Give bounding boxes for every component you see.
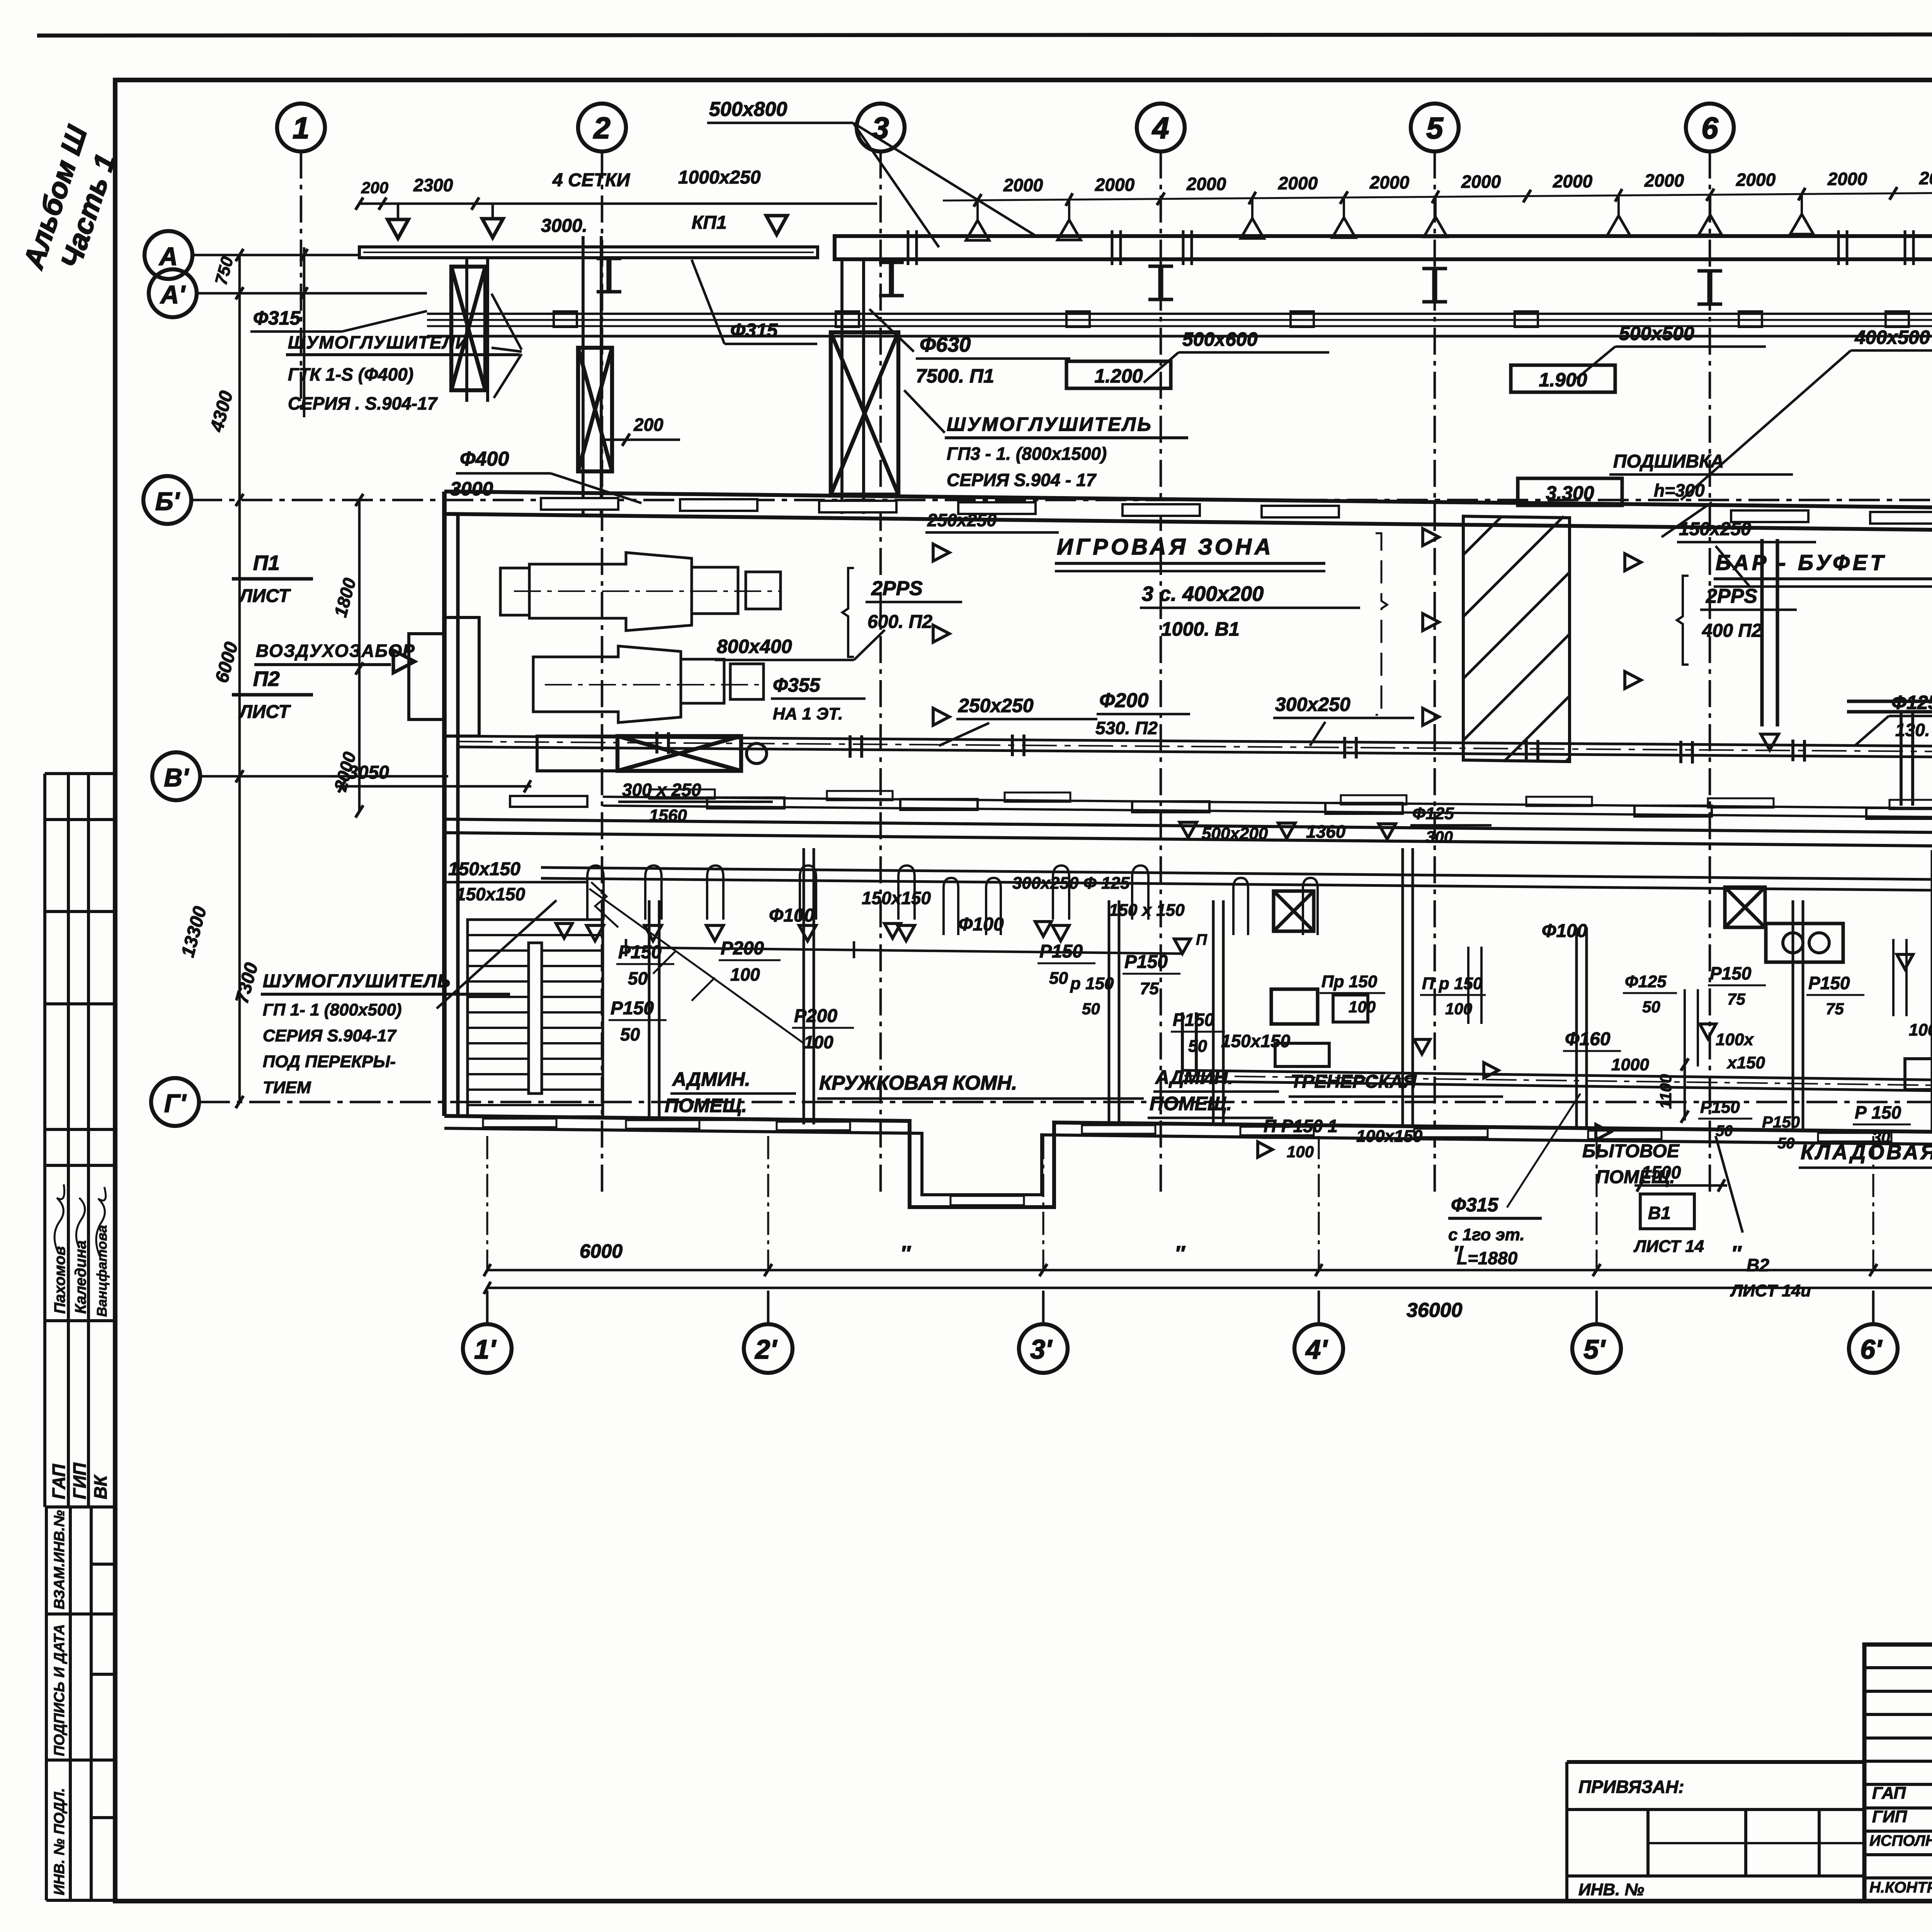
svg-text:530. П2: 530. П2 [1095, 718, 1158, 738]
svg-text:30: 30 [1872, 1128, 1890, 1146]
svg-text:П р 150: П р 150 [1422, 974, 1483, 993]
horizontal duct pair into bar wall [1847, 699, 1932, 703]
svg-text:ВК: ВК [90, 1475, 111, 1499]
dim line between А and А1 [303, 247, 306, 417]
small arrows lower band [1258, 1142, 1272, 1157]
svg-text:h=300: h=300 [1654, 480, 1705, 500]
svg-text:Ф355: Ф355 [773, 674, 821, 696]
axis А prime horizontal line [197, 292, 427, 295]
interior partitions [649, 848, 1932, 1132]
svg-text:ГИП: ГИП [70, 1463, 90, 1499]
svg-text:ИНВ. №: ИНВ. № [1578, 1880, 1644, 1899]
svg-text:АДМИН.: АДМИН. [672, 1068, 750, 1090]
svg-text:Ф400: Ф400 [460, 448, 509, 470]
svg-text:100: 100 [1287, 1143, 1314, 1161]
svg-text:150 х 150: 150 х 150 [1109, 901, 1185, 920]
svg-text:Ф630: Ф630 [920, 333, 971, 356]
svg-text:П1: П1 [253, 551, 280, 575]
svg-text:2000: 2000 [1186, 174, 1226, 194]
svg-text:НА 1 ЭТ.: НА 1 ЭТ. [773, 704, 843, 723]
bracket labels 2РРS [842, 568, 854, 657]
svg-text:А': А' [160, 280, 186, 309]
building outer top wall [444, 492, 1932, 532]
svg-text:5: 5 [1426, 111, 1444, 145]
svg-text:2000: 2000 [1461, 172, 1501, 192]
svg-text:Ф100: Ф100 [1542, 921, 1587, 941]
svg-text:″: ″ [1731, 1242, 1742, 1265]
svg-text:3000.: 3000. [541, 216, 587, 236]
leader zigzag 150x150 [589, 889, 804, 1043]
axis 4 [1137, 104, 1185, 151]
svg-text:50: 50 [628, 968, 648, 988]
svg-text:ЛИСТ: ЛИСТ [238, 586, 291, 606]
svg-text:СЕРИЯ S.904-17: СЕРИЯ S.904-17 [263, 1026, 397, 1045]
svg-text:150х150: 150х150 [456, 884, 525, 904]
svg-text:Ф315: Ф315 [1451, 1194, 1499, 1216]
ventilation unit П1 [500, 553, 781, 631]
svg-text:ПОДШИВКА: ПОДШИВКА [1613, 451, 1724, 472]
cross silencer + heater block [617, 736, 741, 771]
svg-text:ШУМОГЛУШИТЕЛИ: ШУМОГЛУШИТЕЛИ [288, 332, 469, 352]
svg-text:2000: 2000 [1003, 175, 1043, 195]
svg-text:150х150: 150х150 [448, 859, 520, 879]
svg-text:5': 5' [1583, 1334, 1606, 1364]
axis Г-prime [151, 1078, 199, 1126]
svg-text:100: 100 [1349, 998, 1376, 1016]
grille duct 1000x250 КП1 [359, 247, 818, 258]
svg-text:ЛИСТ 14и: ЛИСТ 14и [1730, 1281, 1811, 1300]
svg-text:Р150: Р150 [1710, 963, 1752, 983]
svg-text:ЛИСТ 14: ЛИСТ 14 [1633, 1237, 1704, 1256]
lower band fans and boxes [1274, 891, 1314, 931]
svg-text:100: 100 [804, 1032, 833, 1052]
svg-text:Ф100: Ф100 [769, 905, 815, 926]
svg-text:100х150: 100х150 [1909, 1020, 1932, 1039]
svg-text:В2: В2 [1747, 1255, 1769, 1275]
svg-text:2300: 2300 [413, 175, 453, 195]
axis 2 [578, 104, 626, 151]
svg-text:200: 200 [633, 415, 663, 435]
column I-beam symbols [597, 259, 621, 292]
top dimension line with 2000 spacing [359, 167, 1932, 240]
axis 6 [1686, 104, 1734, 151]
svg-text:100: 100 [1445, 1000, 1472, 1018]
fan unit with two circles [1766, 923, 1843, 962]
svg-text:2': 2' [754, 1334, 777, 1364]
axis 1 prime [463, 1324, 512, 1373]
svg-text:50: 50 [1049, 969, 1068, 988]
axis 5 [1411, 104, 1459, 151]
svg-text:2000: 2000 [1827, 169, 1867, 189]
svg-text:2РРS: 2РРS [1706, 585, 1757, 607]
axis А [145, 231, 192, 279]
extra risers left rooms [944, 878, 1318, 935]
svg-text:7500. П1: 7500. П1 [916, 365, 994, 387]
svg-text:1500: 1500 [1641, 1162, 1681, 1182]
elevation boxed labels [1066, 361, 1171, 388]
svg-text:3000: 3000 [450, 478, 493, 500]
svg-text:В1: В1 [1648, 1203, 1671, 1223]
left margin signature table ГАП ГИП ВК [45, 1165, 115, 1507]
svg-text:ПРИВЯЗАН:: ПРИВЯЗАН: [1578, 1777, 1684, 1797]
upper return duct band in play zone [603, 789, 1932, 818]
axis А horizontal line [192, 254, 359, 257]
svg-text:75: 75 [1727, 990, 1745, 1008]
svg-text:1000: 1000 [1611, 1055, 1649, 1074]
привязан block [1567, 1762, 1864, 1901]
svg-text:″: ″ [900, 1242, 911, 1265]
svg-text:150х150: 150х150 [862, 888, 931, 908]
axis В prime horizontal line [200, 775, 448, 778]
svg-text:ИГРОВАЯ ЗОНА: ИГРОВАЯ ЗОНА [1057, 534, 1274, 560]
axis А-prime [149, 269, 197, 317]
svg-text:КЛАДОВАЯ ГАРДЕРОБ: КЛАДОВАЯ ГАРДЕРОБ [1801, 1141, 1932, 1164]
grille row 500x200 1360 [1180, 822, 1197, 838]
svg-text:ГТК 1-S (Ф400): ГТК 1-S (Ф400) [288, 364, 413, 384]
svg-text:3050: 3050 [348, 762, 389, 783]
svg-text:Р150: Р150 [1124, 952, 1168, 972]
axis 5 prime [1572, 1324, 1621, 1373]
svg-text:ИСПОЛН.: ИСПОЛН. [1869, 1832, 1932, 1849]
svg-text:Р150: Р150 [1762, 1113, 1800, 1131]
building left wall [442, 492, 447, 1116]
svg-text:ГИП: ГИП [1872, 1807, 1908, 1826]
svg-text:250х250: 250х250 [927, 510, 997, 530]
svg-text:р 150: р 150 [1070, 974, 1114, 993]
svg-text:2000: 2000 [1369, 172, 1410, 192]
svg-text:400 П2: 400 П2 [1702, 621, 1762, 641]
axis Б-prime [143, 476, 191, 524]
secondary vertical dim 1800/2000 [358, 500, 361, 811]
svg-text:1: 1 [293, 111, 309, 145]
silencer ГТК box left [465, 258, 468, 402]
lower corridor duct D2 [541, 867, 1932, 892]
left dim labels 200 2300 сетки [355, 197, 363, 210]
svg-text:50: 50 [1716, 1122, 1733, 1139]
signature squiggles sidebar [54, 1184, 105, 1256]
svg-text:А: А [158, 242, 178, 270]
svg-text:3.300: 3.300 [1546, 482, 1594, 504]
ventilation unit П2 [533, 646, 764, 723]
existing hall south wall band with mullions [427, 311, 1932, 492]
svg-text:200: 200 [361, 179, 388, 197]
svg-text:Р 150: Р 150 [1855, 1102, 1901, 1122]
svg-text:ВЗАМ.ИНВ.№: ВЗАМ.ИНВ.№ [51, 1510, 68, 1609]
stairs [468, 920, 603, 1117]
svg-text:600. П2: 600. П2 [867, 612, 932, 632]
svg-text:Пр 150: Пр 150 [1321, 972, 1378, 991]
exhaust duct D1 across building [458, 736, 1932, 759]
svg-text:150х150: 150х150 [1221, 1031, 1290, 1051]
svg-text:4': 4' [1305, 1334, 1328, 1364]
grille nabla symbols on КП1 duct [388, 219, 408, 238]
svg-text:50: 50 [1642, 998, 1660, 1016]
svg-text:1000х250: 1000х250 [678, 167, 761, 188]
hatched shaft wall [1463, 516, 1570, 762]
svg-text:1000. В1: 1000. В1 [1161, 618, 1240, 640]
svg-text:П2: П2 [253, 667, 280, 690]
supply arrows play zone [933, 544, 949, 561]
bottom dimension line row 2 36000 [487, 1287, 1932, 1289]
axis 2 prime [744, 1324, 793, 1373]
svg-text:2РРS: 2РРS [871, 577, 923, 600]
svg-text:400х500: 400х500 [1854, 327, 1930, 348]
axis 1 [277, 104, 325, 151]
extra flange ticks on D1 [849, 735, 852, 758]
svg-text:Каледина: Каледина [72, 1240, 89, 1314]
svg-text:36000: 36000 [1406, 1299, 1463, 1321]
svg-text:СЕРИЯ S.904 - 17: СЕРИЯ S.904 - 17 [947, 470, 1097, 490]
svg-text:КП1: КП1 [692, 213, 727, 233]
svg-text:800х400: 800х400 [717, 636, 792, 657]
title block signature grid [1864, 1645, 1932, 1901]
svg-text:2: 2 [593, 111, 610, 145]
svg-text:6': 6' [1860, 1334, 1883, 1364]
svg-text:с 1го эт.: с 1го эт. [1448, 1225, 1525, 1244]
svg-text:СЕРИЯ . S.904-17: СЕРИЯ . S.904-17 [288, 393, 438, 413]
svg-text:ВОЗДУХОЗАБОР: ВОЗДУХОЗАБОР [256, 641, 415, 661]
svg-text:300х250: 300х250 [1275, 694, 1350, 715]
left margin upper table [45, 774, 115, 1165]
svg-text:50: 50 [1777, 1135, 1795, 1152]
axis Б prime horizontal line [191, 499, 1932, 502]
svg-text:″: ″ [1175, 1242, 1185, 1265]
interior wall W1 between play zone and rooms [444, 796, 1932, 848]
svg-text:500х500: 500х500 [1619, 323, 1694, 344]
svg-text:ЛИСТ: ЛИСТ [238, 702, 291, 722]
svg-text:100х: 100х [1716, 1030, 1754, 1049]
svg-text:100х150: 100х150 [1356, 1127, 1423, 1146]
svg-text:Ф125: Ф125 [1412, 804, 1454, 823]
svg-text:4: 4 [1151, 111, 1169, 145]
svg-text:ПОМЕЩ.: ПОМЕЩ. [665, 1095, 747, 1116]
svg-text:В': В' [164, 763, 189, 792]
machines in corridor [1271, 989, 1318, 1024]
svg-text:6000: 6000 [580, 1240, 622, 1262]
riser at axis 3 with ГП3 silencer [840, 259, 844, 514]
svg-text:ГП 1- 1 (800х500): ГП 1- 1 (800х500) [263, 1000, 402, 1019]
svg-text:ПОДПИСЬ И ДАТА: ПОДПИСЬ И ДАТА [51, 1624, 68, 1756]
svg-text:Ф125: Ф125 [1625, 972, 1667, 991]
axis В-prime [152, 752, 200, 800]
intake plenum воздухозабор [409, 617, 479, 736]
svg-text:75: 75 [1140, 979, 1159, 998]
svg-text:ГАП: ГАП [1872, 1784, 1906, 1803]
svg-text:150х250: 150х250 [1679, 519, 1751, 539]
svg-text:1': 1' [474, 1334, 497, 1364]
svg-text:300: 300 [1426, 828, 1453, 846]
svg-text:250х250: 250х250 [958, 695, 1034, 716]
svg-text:3 с. 400х200: 3 с. 400х200 [1142, 582, 1264, 605]
svg-text:П: П [1196, 931, 1207, 948]
svg-text:Пахомов: Пахомов [51, 1246, 68, 1314]
svg-text:50: 50 [1082, 1000, 1100, 1018]
бар vertical duct at 150х250 [1760, 539, 1764, 726]
svg-text:Р150: Р150 [1808, 973, 1850, 993]
underlines for flow labels [609, 960, 1932, 1138]
svg-text:ТИЕМ: ТИЕМ [263, 1078, 311, 1097]
svg-text:1560: 1560 [649, 806, 687, 825]
svg-text:Р200: Р200 [794, 1006, 837, 1026]
svg-text:ПОМЕЩ.: ПОМЕЩ. [1150, 1093, 1232, 1114]
svg-text:Г': Г' [164, 1089, 187, 1117]
left margin lower table ИНВ ПОДПИСЬ ВЗАМ [46, 1507, 116, 1900]
misc risers right half [1468, 873, 1932, 1066]
svg-text:КРУЖКОВАЯ КОМН.: КРУЖКОВАЯ КОМН. [819, 1072, 1017, 1094]
building bottom wall [444, 1116, 1932, 1207]
sheet outer top edge line [37, 34, 1932, 36]
svg-text:ШУМОГЛУШИТЕЛЬ: ШУМОГЛУШИТЕЛЬ [263, 971, 451, 992]
svg-text:2000: 2000 [1553, 171, 1593, 191]
svg-text:50: 50 [620, 1024, 640, 1044]
svg-text:ГАП: ГАП [49, 1464, 69, 1499]
svg-text:ПОД ПЕРЕКРЫ-: ПОД ПЕРЕКРЫ- [263, 1052, 396, 1071]
svg-text:300х250 Ф 125: 300х250 Ф 125 [1012, 874, 1130, 893]
svg-text:ИНВ. № ПОДЛ.: ИНВ. № ПОДЛ. [51, 1788, 68, 1895]
axis 6 prime [1849, 1324, 1898, 1373]
svg-text:Б': Б' [155, 487, 180, 515]
svg-text:500х600: 500х600 [1182, 328, 1258, 350]
axis 3 prime [1019, 1324, 1068, 1373]
svg-text:3': 3' [1030, 1334, 1053, 1364]
svg-text:Н.КОНТР,: Н.КОНТР, [1869, 1879, 1932, 1896]
svg-text:Ф315: Ф315 [730, 320, 778, 341]
svg-text:1360: 1360 [1306, 821, 1346, 842]
svg-text:1.900: 1.900 [1539, 369, 1587, 391]
svg-text:ГП3 - 1. (800х1500): ГП3 - 1. (800х1500) [947, 444, 1107, 464]
svg-text:100: 100 [730, 964, 760, 985]
risers on D2 [587, 866, 1148, 920]
bottom dimension line row 1 [487, 1269, 1932, 1272]
corridor thin run left [626, 947, 1182, 954]
svg-text:2000: 2000 [1278, 173, 1318, 193]
left vertical dimension line [238, 255, 241, 1102]
svg-text:П Р150 1: П Р150 1 [1264, 1116, 1338, 1136]
svg-text:1100: 1100 [1656, 1074, 1675, 1109]
svg-text:4 СЕТКИ: 4 СЕТКИ [552, 170, 631, 190]
svg-text:75: 75 [1826, 1000, 1844, 1018]
svg-text:Р150: Р150 [611, 998, 654, 1019]
svg-text:500х800: 500х800 [709, 98, 787, 121]
svg-text:Ф100: Ф100 [958, 914, 1004, 935]
svg-text:Р150: Р150 [1173, 1010, 1214, 1030]
svg-text:2000: 2000 [1736, 170, 1776, 190]
svg-text:Ф200: Ф200 [1099, 689, 1148, 712]
axis 4 prime [1294, 1324, 1343, 1373]
lower horizontal run [1182, 1070, 1932, 1093]
svg-text:Ф160: Ф160 [1565, 1029, 1611, 1049]
axis Г prime horizontal line [199, 1101, 1932, 1104]
svg-text:ШУМОГЛУШИТЕЛЬ: ШУМОГЛУШИТЕЛЬ [947, 413, 1153, 435]
svg-text:L=1880: L=1880 [1457, 1248, 1518, 1268]
svg-text:2000: 2000 [1095, 175, 1135, 195]
svg-text:500х200: 500х200 [1202, 824, 1268, 843]
lower band small labels [456, 874, 1932, 1161]
svg-text:2000: 2000 [1919, 168, 1932, 188]
svg-text:х150: х150 [1726, 1053, 1765, 1072]
axis 3 [857, 104, 905, 151]
svg-text:6: 6 [1701, 111, 1718, 145]
svg-text:1.200: 1.200 [1094, 365, 1143, 387]
svg-text:Ф315: Ф315 [253, 307, 301, 329]
silencer ГТК box on riser B [582, 236, 585, 514]
svg-text:БАР - БУФЕТ: БАР - БУФЕТ [1716, 550, 1886, 575]
main supply duct 500x800 [835, 230, 1932, 265]
svg-text:2000: 2000 [1644, 170, 1684, 190]
nabla triangles lower band [884, 923, 901, 938]
svg-text:Р150: Р150 [1700, 1098, 1740, 1117]
